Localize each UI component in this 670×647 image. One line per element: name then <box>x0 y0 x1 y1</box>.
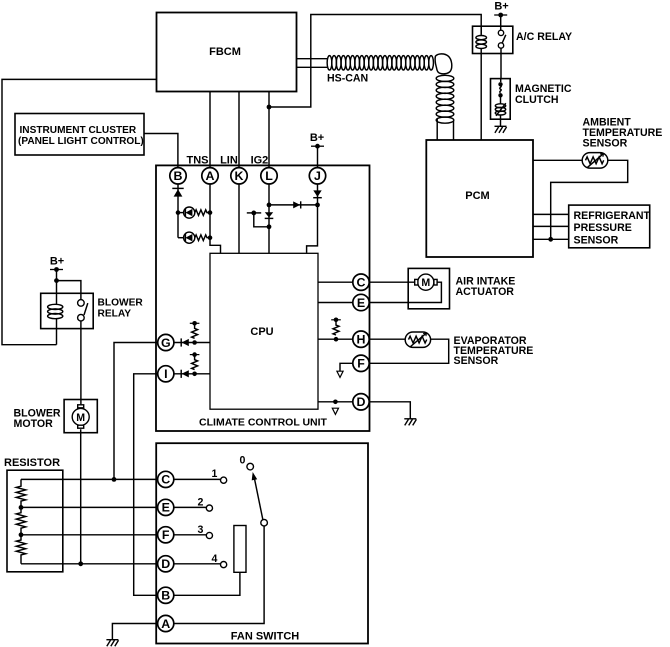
svg-text:F: F <box>162 528 170 542</box>
diode on I wire pointing left <box>181 370 189 378</box>
wire evaporator sensor to pin F <box>369 339 449 363</box>
pull-up resistor on G <box>192 323 198 338</box>
svg-text:I: I <box>164 367 167 381</box>
rotor pivot <box>261 519 268 526</box>
wire pin F to arrow <box>340 363 353 371</box>
contact 4 <box>174 553 227 568</box>
pin C <box>353 274 369 290</box>
ambient temperature sensor label <box>583 116 663 149</box>
svg-text:SENSOR: SENSOR <box>583 137 628 149</box>
contact 2 <box>174 497 213 512</box>
terminal above G resistor <box>190 321 200 326</box>
fan switch box <box>156 443 368 643</box>
wire pin A down into CPU <box>210 184 221 253</box>
ground below magnetic clutch <box>495 126 507 133</box>
FBCM box U-FBCM <box>157 13 297 92</box>
ground below fan switch <box>106 640 118 647</box>
svg-text:D: D <box>357 395 366 409</box>
contact 0 <box>240 455 254 470</box>
wire FBCM left pin to blower relay coil (left margin) <box>2 79 157 344</box>
pin D <box>353 394 369 410</box>
svg-text:TNS: TNS <box>187 155 209 167</box>
HS-CAN stub wires from FBCM <box>297 59 328 68</box>
pin I <box>158 366 174 382</box>
wire PCM to ambient sensor <box>533 159 582 161</box>
wire CPU to pin D <box>318 401 353 403</box>
wire pin D to ground <box>369 402 410 419</box>
svg-text:CLIMATE CONTROL UNIT: CLIMATE CONTROL UNIT <box>199 417 328 429</box>
A/C relay box <box>473 26 573 53</box>
node on I wire <box>192 372 197 377</box>
node on G wire <box>192 340 197 345</box>
CPU box <box>210 253 318 409</box>
node G wire joins C line <box>112 477 117 482</box>
magnetic clutch <box>491 79 572 120</box>
svg-text:A: A <box>206 169 215 183</box>
stub terminal left of L diode <box>247 211 269 227</box>
diode below pin J pointing down <box>313 190 322 197</box>
wire strip to fan pin B <box>174 572 240 595</box>
svg-text:B: B <box>161 589 170 603</box>
wire FBCM to pin A (TNS) <box>209 92 211 168</box>
node on A wire lower <box>208 235 213 240</box>
svg-text:REFRIGERANT: REFRIGERANT <box>574 210 651 222</box>
pin E <box>353 294 369 310</box>
svg-text:C: C <box>161 473 170 487</box>
blower relay coil <box>48 304 63 344</box>
resistor chain <box>16 479 25 563</box>
wire node to relay contact <box>57 281 81 300</box>
wire pin E to air intake actuator <box>369 282 441 302</box>
fan pin B <box>158 587 174 603</box>
svg-text:RELAY: RELAY <box>98 309 132 320</box>
climate control unit box <box>156 165 370 431</box>
cross wire L to J <box>269 204 318 206</box>
wire rotor to fan pin A <box>174 526 264 624</box>
svg-text:E: E <box>357 296 365 310</box>
svg-text:ACTUATOR: ACTUATOR <box>456 286 515 298</box>
evaporator sensor label <box>454 335 534 367</box>
A/C relay contacts <box>498 30 506 48</box>
svg-text:FAN SWITCH: FAN SWITCH <box>231 631 299 643</box>
node on J wire <box>315 203 320 208</box>
pin G <box>158 334 174 350</box>
pin A <box>202 168 218 184</box>
B+ terminal above blower relay <box>50 256 64 306</box>
wire instrument cluster to pin B <box>144 134 178 168</box>
pull-up resistor on H <box>333 320 339 335</box>
wire relay to blower motor <box>80 321 82 404</box>
B+ terminal above A/C relay <box>494 1 508 31</box>
svg-text:0: 0 <box>240 455 246 467</box>
wire I external to fan switch B <box>134 374 158 596</box>
svg-text:B+: B+ <box>50 256 64 268</box>
node on D wire <box>333 400 338 405</box>
wire resistor bottom to fan D <box>21 563 158 565</box>
wire FBCM to pin K (LIN) <box>238 92 240 168</box>
pin H <box>353 331 369 347</box>
fan pin D <box>158 556 174 572</box>
svg-text:3: 3 <box>198 524 204 536</box>
blower relay box <box>41 293 144 328</box>
fan pin A <box>158 615 174 631</box>
blower motor <box>72 405 89 428</box>
LED 1 <box>178 207 195 218</box>
fan pin C <box>158 471 174 487</box>
contact 1 <box>174 468 227 483</box>
B+ terminal above pin J <box>310 132 324 168</box>
diode below pin B <box>172 188 183 196</box>
svg-text:(PANEL LIGHT CONTROL): (PANEL LIGHT CONTROL) <box>18 136 144 147</box>
svg-text:B: B <box>174 169 183 183</box>
svg-text:LIN: LIN <box>220 155 238 167</box>
svg-text:INSTRUMENT CLUSTER: INSTRUMENT CLUSTER <box>20 125 137 136</box>
magnetic clutch internals <box>495 79 506 127</box>
svg-text:FBCM: FBCM <box>209 46 241 58</box>
node on D line <box>78 561 83 566</box>
diode on cross wire pointing right <box>293 201 301 208</box>
wire resistor tap to fan E <box>21 506 158 508</box>
wires PCM to refrigerant pressure sensor <box>533 214 569 239</box>
svg-text:H: H <box>357 333 366 347</box>
rotor arm with arrow <box>252 472 263 520</box>
wire CPU to pin H <box>318 338 353 340</box>
contact 3 <box>174 524 213 539</box>
node L upper <box>267 203 272 208</box>
wire IG2 jog to A/C relay coil <box>269 15 481 108</box>
A/C relay coil <box>476 26 487 140</box>
pin J <box>309 168 325 184</box>
terminal above H resistor <box>331 318 341 323</box>
svg-text:PRESSURE: PRESSURE <box>574 222 632 234</box>
svg-text:F: F <box>357 357 365 371</box>
svg-text:1: 1 <box>212 468 218 480</box>
wire pin J down into CPU <box>307 184 318 253</box>
wire fan pin A to ground <box>112 624 157 640</box>
svg-text:MOTOR: MOTOR <box>14 418 54 430</box>
resistor after LED2 <box>195 235 210 241</box>
ambient temperature sensor thermistor <box>582 153 608 169</box>
fan pin E <box>158 499 174 515</box>
node resistor tap F <box>19 532 24 537</box>
wire pin L down into CPU <box>268 184 270 253</box>
svg-text:SENSOR: SENSOR <box>454 355 499 367</box>
blower relay contacts <box>78 300 88 321</box>
svg-text:M: M <box>76 412 85 424</box>
refrigerant pressure sensor box <box>569 205 651 248</box>
wire FBCM to pin L (IG2) <box>268 92 270 168</box>
PCM box <box>426 140 533 257</box>
svg-text:SENSOR: SENSOR <box>574 235 619 247</box>
wire A/C relay to magnetic clutch <box>500 48 502 78</box>
node resistor tap E <box>19 505 24 510</box>
HS-CAN twisted pair vertical coil <box>436 75 454 123</box>
node L lower <box>267 224 272 229</box>
node on L wire <box>267 105 272 110</box>
svg-text:2: 2 <box>198 497 204 509</box>
pin K <box>231 168 247 184</box>
air intake actuator motor <box>415 274 437 290</box>
wire CPU to pin C <box>318 281 353 283</box>
svg-text:CLUTCH: CLUTCH <box>515 94 559 106</box>
node on H wire <box>334 337 339 342</box>
wire G external to fan switch C line <box>114 343 158 480</box>
node on A wire upper <box>208 210 213 215</box>
svg-text:E: E <box>162 501 170 515</box>
LED 2 <box>178 232 195 243</box>
svg-text:D: D <box>161 557 170 571</box>
node above blower relay <box>54 278 59 283</box>
svg-text:K: K <box>235 169 244 183</box>
svg-text:CPU: CPU <box>250 326 273 338</box>
instrument cluster box <box>15 114 144 156</box>
wire CPU to pin E <box>318 302 353 304</box>
HS-CAN wires into PCM <box>437 119 453 140</box>
node on B wire <box>176 210 181 215</box>
svg-text:A/C RELAY: A/C RELAY <box>516 31 572 43</box>
open arrow below D node <box>332 408 338 414</box>
diode on L wire pointing down <box>265 212 274 218</box>
svg-text:G: G <box>161 336 171 350</box>
air intake actuator box <box>408 268 515 308</box>
svg-text:RESISTOR: RESISTOR <box>4 457 60 469</box>
fan pin F <box>158 527 174 543</box>
terminal above I resistor <box>190 352 200 357</box>
resistor after LED1 <box>195 210 210 216</box>
diode on G wire pointing left <box>181 338 189 346</box>
svg-text:L: L <box>265 169 273 183</box>
pin L <box>261 168 277 184</box>
svg-text:B+: B+ <box>310 132 324 144</box>
wire pin B down <box>177 184 179 238</box>
wire resistor top to fan C <box>21 478 158 480</box>
svg-text:A: A <box>161 617 170 631</box>
pin B <box>170 168 186 184</box>
blower motor box <box>14 400 98 433</box>
resistor strip in fan switch <box>234 526 246 573</box>
HS-CAN twisted pair horizontal coil <box>327 54 452 74</box>
svg-text:C: C <box>357 276 366 290</box>
wire resistor tap to fan F <box>21 534 158 536</box>
ground right of climate unit <box>404 419 416 426</box>
svg-text:PCM: PCM <box>465 190 489 202</box>
evaporator thermistor <box>405 332 430 347</box>
svg-text:J: J <box>314 169 321 183</box>
wire ambient sensor return to refrigerant ground wire <box>551 160 628 239</box>
svg-text:M: M <box>421 277 430 289</box>
resistor box <box>7 470 63 572</box>
svg-text:IG2: IG2 <box>251 155 269 167</box>
wire blower motor to resistor D line <box>80 429 82 564</box>
wire pin H to evaporator sensor <box>369 338 405 340</box>
svg-text:4: 4 <box>212 553 218 565</box>
pin F <box>353 355 369 371</box>
pull-up resistor on I <box>192 355 198 370</box>
node ambient return on bottom wire <box>548 237 553 242</box>
open arrow below F wire <box>337 371 343 377</box>
wire pin K down into CPU <box>238 184 240 253</box>
svg-text:HS-CAN: HS-CAN <box>327 73 368 85</box>
svg-text:BLOWER: BLOWER <box>98 298 144 309</box>
svg-text:B+: B+ <box>494 1 508 13</box>
wire G to CPU <box>174 342 210 344</box>
wire I to CPU <box>174 373 210 375</box>
wire pin C to air intake actuator <box>369 281 415 283</box>
